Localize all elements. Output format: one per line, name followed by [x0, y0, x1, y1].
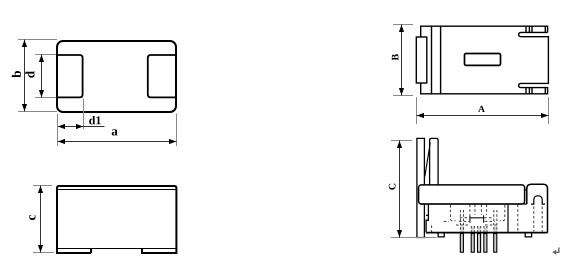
hidden vertical left base [431, 225, 433, 232]
dimension a extension lines [58, 114, 177, 147]
notch between bar and block [525, 187, 527, 190]
dimension a arrows [58, 139, 65, 144]
body lower-left outline step [426, 204, 428, 232]
recess line across bottom [57, 248, 176, 250]
standoff foot right [525, 233, 531, 237]
left terminal pad [57, 55, 83, 97]
pins gray stubs above bottom [460, 226, 497, 232]
label A [478, 106, 485, 112]
bar bottom edge [420, 203, 527, 205]
right terminal pad [148, 55, 176, 97]
side tab [416, 37, 427, 83]
latch strip with rounded top [430, 138, 439, 184]
label B [392, 54, 399, 60]
dimension c line [40, 186, 42, 253]
latch diagonal [425, 143, 431, 177]
hidden L-shape left [450, 205, 455, 221]
pin band dividers top [529, 26, 545, 32]
label C [389, 184, 396, 190]
pins below body [460, 234, 497, 253]
dimension C arrows [397, 141, 402, 148]
label a [112, 129, 118, 135]
hidden dashed internals [432, 205, 518, 233]
dimension A extension lines [417, 97, 549, 124]
dimension A arrows [417, 113, 424, 118]
horizontal bar [419, 185, 525, 204]
dimension d1 extension line [83, 99, 85, 130]
dimension d arrows [39, 55, 44, 62]
dimension b extension lines [18, 40, 57, 112]
component body top view [57, 41, 176, 112]
hidden horizontal row 2 [444, 220, 495, 222]
dimension A line [417, 115, 549, 117]
lever strip [417, 138, 425, 237]
label d1 [89, 116, 101, 124]
label d [25, 71, 34, 78]
inner vertical lines [432, 26, 441, 94]
solid vertical right inner [507, 204, 509, 233]
dimension a line [58, 141, 177, 143]
hidden verticals upper row [470, 205, 487, 215]
dimension B line [401, 25, 403, 96]
standoff foot left [438, 233, 444, 237]
center slot [465, 54, 501, 66]
top inner line [57, 189, 176, 191]
label b [12, 71, 21, 78]
dimension d line [41, 55, 43, 98]
return mark symbol [554, 248, 559, 253]
dimension c extension lines [33, 186, 54, 253]
dimension d extension lines [35, 55, 56, 98]
dimension c arrows [38, 186, 43, 193]
body outline with right flanges [421, 26, 549, 94]
hidden horizontal row 1 [460, 217, 494, 219]
staple detail [531, 196, 545, 204]
dimension B arrows [399, 25, 404, 32]
dimension C extension lines [391, 141, 436, 238]
dimension d1 arrows [58, 124, 65, 129]
dimension b line [24, 40, 26, 112]
pin band dividers bottom [529, 88, 545, 94]
hidden vertical near right [517, 205, 519, 233]
dimension C line [399, 141, 401, 238]
label c [29, 215, 35, 220]
solid H detail center [470, 215, 484, 222]
dimension d1 line [58, 126, 105, 128]
dimension B extension lines [393, 25, 413, 96]
hidden horizontal row 3 [456, 224, 497, 226]
hidden L-shape right [500, 205, 505, 221]
tall block right [527, 184, 548, 233]
dimension b arrows [22, 40, 27, 47]
hidden dashed pin edges [460, 210, 497, 232]
component body front outline with feet [57, 186, 176, 253]
body bottom edge [426, 232, 547, 234]
staple legs dashed inside block [534, 207, 542, 232]
